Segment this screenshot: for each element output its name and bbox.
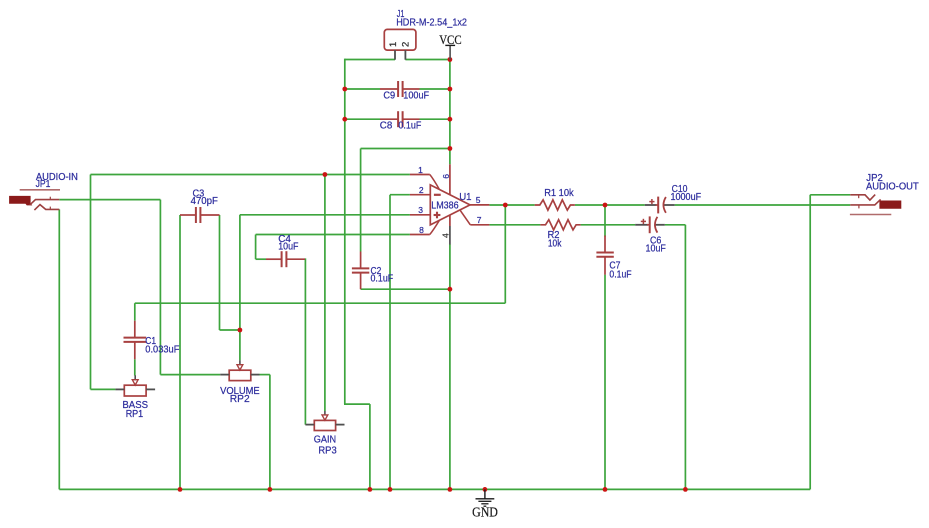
- pin 1 of J1: [394, 50, 396, 60]
- wire left GND rail from J1: [344, 59, 346, 405]
- svg-text:RP2: RP2: [230, 394, 250, 405]
- svg-text:10k: 10k: [548, 239, 562, 250]
- RP1 right pin: [146, 388, 155, 390]
- pin 1 of U1: [410, 175, 440, 190]
- svg-text:GAIN: GAIN: [314, 435, 336, 446]
- wire feedback up to pin5 node: [504, 205, 506, 303]
- svg-text:RP3: RP3: [318, 445, 337, 456]
- pin 3 of U1: [410, 214, 430, 216]
- pin 7 of U1: [460, 210, 489, 225]
- wire pin3 to volume wiper: [239, 215, 241, 360]
- capacitor C8: [380, 111, 420, 127]
- RP2 wiper: [237, 360, 243, 370]
- wire JP1 ring down-left GND rail: [58, 209, 60, 489]
- svg-text:0.1uF: 0.1uF: [398, 120, 421, 131]
- wire gain wiper vertical: [324, 175, 326, 412]
- wire C9 right: [420, 88, 450, 90]
- wire C1 bottom to bass wiper: [134, 359, 136, 375]
- wire pin7 to R2: [489, 224, 540, 226]
- ground: [476, 489, 495, 506]
- node GND C3: [178, 487, 183, 492]
- wire C6 to GND rail: [684, 225, 686, 490]
- wire C9 left: [345, 88, 380, 90]
- connector J1 body: [384, 29, 416, 50]
- node C2 pin4: [448, 287, 453, 292]
- svg-text:470pF: 470pF: [191, 196, 218, 207]
- svg-text:C8: C8: [380, 120, 393, 131]
- wire pin4 to GND rail: [449, 244, 451, 489]
- node C3 wiper: [238, 328, 243, 333]
- resistor R1: [535, 200, 575, 210]
- node R1 C10 C7: [603, 203, 608, 208]
- op-amp plus sign: [434, 212, 441, 219]
- JP2 sleeve bar: [850, 214, 891, 216]
- RP2 right pin: [251, 374, 260, 376]
- resistor R2: [540, 220, 580, 230]
- wire C4 left: [256, 258, 266, 260]
- node GND C7: [603, 487, 608, 492]
- wire C7 top vertical: [604, 205, 606, 237]
- wire C3 left vertical: [179, 215, 181, 489]
- wire right rail to JP2 tip: [809, 195, 811, 490]
- JP2 plug: [880, 201, 901, 208]
- svg-text:0.033uF: 0.033uF: [145, 345, 179, 356]
- svg-text:1: 1: [388, 42, 399, 47]
- node GND pin4: [448, 487, 453, 492]
- wire BASS left: [91, 388, 116, 390]
- pin 2 of J1: [404, 50, 406, 60]
- wire R1 to node: [575, 204, 605, 206]
- svg-text:4: 4: [440, 233, 450, 238]
- svg-text:GND: GND: [472, 505, 498, 520]
- wire pin3 row: [240, 214, 410, 216]
- svg-text:100uF: 100uF: [403, 90, 429, 101]
- node GND J1: [368, 487, 373, 492]
- capacitor C10: [645, 197, 675, 214]
- node pin5 output: [503, 203, 508, 208]
- wire pin1 row: [91, 174, 410, 176]
- svg-text:U1: U1: [459, 192, 472, 203]
- svg-text:10uF: 10uF: [646, 244, 666, 255]
- wire R2 to C6: [581, 224, 636, 226]
- svg-text:3: 3: [418, 205, 423, 215]
- svg-text:1: 1: [418, 165, 423, 175]
- wire C4 right vertical: [304, 258, 306, 424]
- wire to VOLUME left: [160, 374, 220, 376]
- RP2 left pin: [220, 374, 229, 376]
- wire J1 pin1 to left rail: [345, 59, 395, 61]
- wire C3 right vertical: [219, 215, 221, 330]
- node GND sym: [483, 487, 488, 492]
- JP1 plug: [10, 196, 32, 205]
- node C8 left: [342, 117, 347, 122]
- wire VOLUME right to GND: [269, 375, 271, 490]
- svg-text:8: 8: [419, 225, 424, 235]
- svg-text:LM386: LM386: [431, 200, 459, 211]
- pin 2 of U1: [410, 194, 430, 196]
- op-amp minus sign: [434, 194, 441, 196]
- wire pin2 to GND rail: [389, 195, 391, 490]
- wire pin8 row: [256, 234, 410, 236]
- wire JP2 tip row: [810, 194, 850, 196]
- svg-text:6: 6: [441, 174, 451, 179]
- capacitor C1: [124, 321, 147, 360]
- wire pin1 left rail: [90, 175, 92, 390]
- capacitor C3: [180, 207, 220, 223]
- wire pin2 stub row: [390, 194, 410, 196]
- node GND volume: [268, 487, 273, 492]
- wire tip vertical: [159, 200, 161, 375]
- wire C7 bottom to GND: [604, 275, 606, 490]
- JP2 tip pin tick: [858, 195, 860, 198]
- wire C8 right: [420, 118, 450, 120]
- JP1 tip pin tick: [49, 197, 51, 200]
- svg-text:2: 2: [401, 42, 412, 47]
- wire C2 top vertical: [360, 149, 362, 252]
- pin 5 of U1: [470, 204, 489, 206]
- svg-text:RP1: RP1: [126, 409, 144, 420]
- node C9 right: [448, 87, 453, 92]
- wire pin8 down to C4: [255, 235, 257, 260]
- JP2 tip contact: [850, 195, 875, 201]
- capacitor C7: [596, 236, 613, 275]
- svg-text:AUDIO-OUT: AUDIO-OUT: [866, 182, 919, 193]
- wire C1 top vertical: [134, 303, 136, 321]
- svg-text:VCC: VCC: [439, 33, 461, 47]
- svg-text:HDR-M-2.54_1x2: HDR-M-2.54_1x2: [396, 18, 467, 29]
- RP1 wiper: [132, 375, 138, 385]
- wire C2 bottom row: [361, 288, 450, 290]
- wire output feedback row: [135, 302, 506, 304]
- wire pin5 to R1: [489, 204, 534, 206]
- svg-text:7: 7: [477, 215, 482, 225]
- capacitor C2: [352, 252, 369, 290]
- pin 6 of U1: [449, 164, 451, 194]
- pin 8 of U1: [410, 220, 440, 234]
- node GND C6: [683, 487, 688, 492]
- JP1 ring contact: [34, 205, 59, 211]
- node C9 left: [342, 87, 347, 92]
- wire bottom GND rail: [59, 488, 810, 490]
- wire J1 pin2 to VCC: [405, 59, 450, 61]
- JP1 sleeve bar: [20, 189, 60, 191]
- svg-text:C9: C9: [383, 90, 395, 101]
- svg-text:JP1: JP1: [36, 179, 51, 190]
- RP3 wiper: [322, 411, 328, 420]
- JP1 ring pin tick: [49, 207, 51, 210]
- node VCC J1: [448, 57, 453, 62]
- svg-text:R1 10k: R1 10k: [544, 188, 574, 199]
- svg-text:2: 2: [419, 185, 424, 195]
- node GND pin2: [388, 487, 393, 492]
- wire VOLUME right: [260, 374, 270, 376]
- RP3 right pin: [336, 424, 345, 426]
- wire VCC to C2 row: [361, 148, 450, 150]
- wire node to C10: [605, 204, 645, 206]
- wire C3 to wiper junction: [220, 329, 240, 331]
- node pin1 gain: [323, 172, 328, 177]
- svg-text:5: 5: [476, 195, 481, 205]
- VCC symbol: [445, 45, 455, 59]
- JP2 ring contact: [850, 199, 880, 205]
- JP2 ring pin tick: [858, 206, 860, 209]
- wire VCC rail: [449, 60, 451, 165]
- RP1 left pin: [115, 388, 124, 390]
- capacitor C6: [635, 216, 665, 233]
- op-amp U1 body: [430, 185, 470, 225]
- wire C10 to JP2 ring: [675, 204, 851, 206]
- svg-text:10uF: 10uF: [278, 241, 298, 252]
- node C8 right: [448, 117, 453, 122]
- svg-text:0.1uF: 0.1uF: [371, 274, 394, 285]
- JP1 tip contact: [30, 200, 60, 205]
- potentiometer RP3 body: [314, 420, 335, 430]
- wire GND jog horizontal: [344, 403, 370, 405]
- potentiometer RP1 body: [124, 385, 146, 396]
- potentiometer RP2 body: [229, 370, 251, 380]
- node C2 VCC: [448, 146, 453, 151]
- capacitor C4: [266, 251, 305, 267]
- wire JP1 tip row: [59, 199, 160, 201]
- capacitor C9: [380, 81, 420, 97]
- svg-text:1000uF: 1000uF: [671, 192, 702, 203]
- wire C6 right: [665, 224, 686, 226]
- RP3 left pin: [305, 424, 314, 426]
- wire GND jog vertical: [369, 404, 371, 489]
- svg-text:0.1uF: 0.1uF: [609, 269, 631, 280]
- wire C8 left: [345, 118, 380, 120]
- pin 4 of U1: [449, 215, 451, 245]
